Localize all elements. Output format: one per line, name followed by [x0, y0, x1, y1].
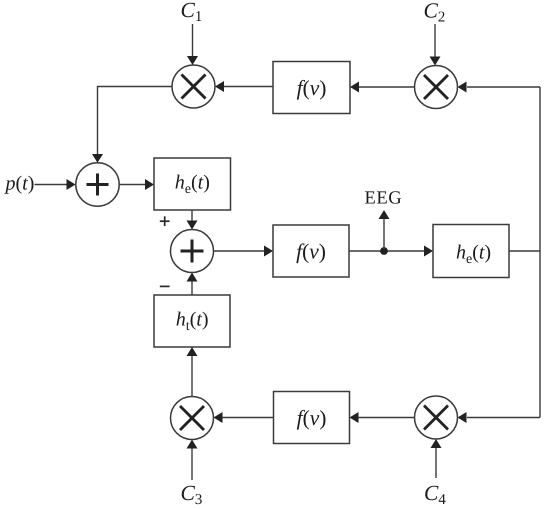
wire M1 to summer S1 [92, 87, 172, 163]
wire F3 to M3 [214, 412, 274, 423]
label plus sign at S2 [160, 216, 170, 226]
summer S1 [76, 163, 119, 206]
wire F1 to M1 [215, 81, 273, 92]
wire F2 to block B2 [349, 246, 433, 257]
wire C4 to M4 [431, 439, 442, 478]
label minus sign at S2 [160, 285, 170, 287]
wire feedback to M2 [458, 82, 541, 93]
wire M2 to F1 [350, 82, 415, 93]
block HT ht(t) [154, 295, 230, 347]
wire M4 to F3 [350, 412, 415, 423]
block F2 f(v) middle [273, 225, 349, 277]
node C3 [182, 486, 202, 504]
block B1 he(t) [154, 158, 231, 210]
wire C2 to multiplier M2 [430, 24, 441, 66]
multiplier M3 [171, 397, 214, 440]
wire HT to S2 [187, 273, 198, 296]
block F3 f(v) bottom [274, 392, 350, 444]
node C1 [182, 3, 202, 21]
summer S2 [171, 230, 214, 273]
node C2 [425, 3, 445, 21]
node EEG [365, 191, 401, 203]
block B2 he(t) right [433, 225, 509, 278]
node C4 [425, 486, 445, 504]
wire B1 to summer S2 [187, 210, 198, 230]
wire junction to EEG [379, 210, 390, 249]
wire S1 to block B1 [119, 179, 155, 190]
multiplier M1 [172, 65, 215, 108]
wire feedback to M4 [458, 412, 541, 423]
multiplier M4 [415, 396, 458, 439]
wire C3 to M3 [187, 440, 198, 481]
multiplier M2 [415, 66, 458, 109]
wire S2 to block F2 [214, 246, 274, 257]
block F1 f(v) top [273, 62, 350, 114]
junction EEG tap [380, 247, 388, 255]
wire M3 to HT [187, 347, 198, 397]
node p(t) [4, 176, 33, 194]
wire B2 to feedback bus [509, 87, 540, 418]
wire p(t) to S1 [35, 179, 76, 190]
wire C1 to multiplier M1 [187, 24, 198, 65]
